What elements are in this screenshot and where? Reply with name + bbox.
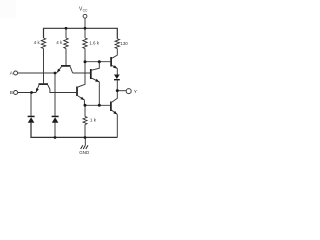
svg-text:1.6 k: 1.6 k bbox=[89, 40, 100, 45]
svg-text:GND: GND bbox=[79, 150, 90, 155]
svg-text:4 k: 4 k bbox=[34, 40, 41, 45]
svg-text:1 k: 1 k bbox=[90, 117, 97, 122]
svg-text:130: 130 bbox=[120, 41, 128, 46]
svg-text:CC: CC bbox=[83, 8, 88, 12]
svg-text:B: B bbox=[10, 90, 13, 96]
svg-text:4 k: 4 k bbox=[56, 40, 63, 45]
